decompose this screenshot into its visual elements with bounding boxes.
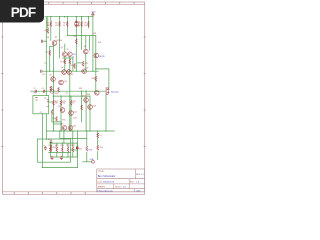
wire psu link [70,149,77,151]
svg-text:10k: 10k [47,25,50,27]
wire sub-rail y35.6 [67,35,96,37]
svg-text:100: 100 [84,25,87,27]
transistor Q5 [94,53,99,58]
wire x71 low [70,96,72,131]
wire x77.5 psu [77,131,79,168]
wire x97.7 drop b [97,152,99,160]
svg-text:R18: R18 [89,150,92,152]
diode D2 [75,25,77,27]
svg-text:BC556: BC556 [56,40,62,42]
wire x72.9 [72,58,74,71]
electrolytic cap C11 [50,89,54,93]
resistor R15 [81,105,83,110]
components [33,11,119,163]
svg-text:Q8: Q8 [86,67,88,69]
svg-text:1k: 1k [63,25,65,27]
wire x95.8 [95,36,97,92]
svg-text:+35V: +35V [91,11,96,13]
wire y138.4 [60,137,87,139]
resistor R25 [56,147,58,152]
svg-text:1k: 1k [72,103,74,105]
svg-text:Q2: Q2 [61,47,63,49]
wire x97.7 drop [97,131,99,145]
svg-text:R18: R18 [98,42,101,44]
svg-text:Q15: Q15 [60,123,63,125]
capacitor C13 [44,146,47,150]
capacitor C2 [43,90,44,93]
resistor R14 [70,100,72,105]
resistor R2 [59,21,61,26]
transistor Q8 [82,69,87,74]
svg-text:C9: C9 [44,63,46,65]
resistor R9 [76,39,78,44]
svg-text:R30: R30 [55,93,58,95]
svg-text:330: 330 [55,103,58,105]
svg-text:28/04/2013: 28/04/2013 [103,182,115,184]
sheet frame [2,2,144,194]
svg-text:PDF: PDF [11,5,36,20]
resistor R3 [67,21,69,26]
resistor R28b [72,147,74,152]
wire output/feedback y91.2 [31,90,106,92]
transistor Q17 [95,91,100,96]
wire x59.5 [59,17,61,58]
svg-text:R19: R19 [100,147,103,149]
svg-text:C1: C1 [33,88,35,90]
resistor R1 [50,21,52,26]
transistor Q13 [84,98,89,103]
svg-text:330: 330 [62,103,65,105]
wire y96.1 [53,95,90,97]
svg-text:R6: R6 [45,30,47,32]
resistor R24 [50,147,52,152]
svg-text:R28: R28 [71,145,74,147]
resistor R6 [47,28,49,33]
diode envelope [74,22,78,26]
svg-text:C8: C8 [65,93,67,95]
wire x53.4 low [52,71,54,131]
wire x42.4 drop [41,114,43,168]
svg-text:C:\Users\ben.sch: C:\Users\ben.sch [97,189,114,192]
wire x53.5 [53,45,55,72]
svg-text:Ben Schematic: Ben Schematic [98,174,116,178]
svg-text:Q16: Q16 [73,118,76,120]
svg-text:R34: R34 [87,94,90,96]
wire x69.5 [69,56,71,131]
svg-text:Q1: Q1 [55,37,57,39]
wire stub y41 [43,40,47,42]
schematic wires [31,15,115,168]
svg-text:Q4: Q4 [83,46,85,48]
svg-text:C11: C11 [50,87,53,89]
svg-text:R29: R29 [92,78,95,80]
resistor R11 [58,87,60,92]
svg-text:Q12: Q12 [74,111,77,113]
resistor R29 [95,76,97,81]
svg-text:1k: 1k [72,57,74,59]
wire diff emitter rail y58 [63,57,73,59]
transistor Q9 [51,77,56,82]
svg-text:R32: R32 [79,148,82,150]
wire emitter link y46.3 [50,45,54,47]
resistor R4 [81,21,83,26]
wire x46.3 low [45,114,47,140]
wire V- bottom rail y131 [47,130,115,132]
wire x89.5 [89,36,91,50]
resistor R18 [86,146,88,151]
wire x51.9 bias [51,115,53,122]
svg-text:P2: P2 [40,112,42,114]
svg-text:Speaker: Speaker [111,90,119,93]
wire x64.5 low [64,56,66,70]
frame reference ticks [1,2,145,194]
wire x86.8 res gnd b [86,152,88,162]
svg-text:BD139: BD139 [99,56,105,58]
wire x61 low [60,96,62,131]
resistor R32 [76,147,78,149]
wire x50.8 [50,17,52,41]
svg-text:R31: R31 [62,120,65,122]
svg-text:R33: R33 [79,88,82,90]
resistor R23 [50,145,52,150]
wire x67.3 [66,17,68,36]
wire x86.1 low [85,91,87,131]
input connector pins [47,100,49,107]
wire y124 [53,123,61,125]
svg-text:Q3: Q3 [66,49,68,51]
svg-text:22k: 22k [55,25,58,27]
transistor Q15 [62,126,67,131]
wire x64.5 [64,44,66,52]
svg-text:Q16: Q16 [73,125,76,127]
capacitor C12 [41,40,42,43]
ground circle [92,160,95,163]
svg-text:D3: D3 [71,74,73,76]
resistor R27 [67,147,69,152]
resistor R20b [97,133,99,138]
wire x61.3 bias [60,122,62,131]
resistor RE2 [69,59,71,64]
wire x85 [85,36,87,50]
title block [97,169,145,192]
svg-text:R7: R7 [46,52,48,54]
svg-text:TITLE:: TITLE: [98,171,105,173]
svg-text:R17: R17 [53,118,56,120]
transistor Q2 [63,52,68,57]
capacitor C4 [60,156,63,160]
wire x47.8 stub [47,17,49,28]
svg-text:R5 R6: R5 R6 [60,61,65,63]
capacitor C7 [41,70,42,73]
transistor Q16 [68,126,73,131]
wire mid rail y71.2 [42,70,98,72]
wire x49.7 [49,46,51,71]
wire bias y121.9 [52,121,61,123]
psu group box [37,139,70,162]
svg-text:X1: X1 [44,98,46,100]
capacitor C3 [51,156,54,160]
resistor R7 [49,50,51,55]
input box pins [35,98,37,100]
capacitor C1 [35,90,36,93]
svg-text:Q10: Q10 [64,81,67,83]
wire y143.1 [50,142,77,144]
transistor Q3 [68,52,73,57]
transistor Q11 [60,108,65,113]
transistor Q10 [59,80,64,85]
svg-text:F1: F1 [100,135,102,137]
svg-text:R27: R27 [66,145,69,147]
wire y62.9 [77,62,82,64]
resistor R21 [82,61,84,66]
wire x88.4 [87,17,89,28]
resistor R10 [50,86,52,91]
resistor R13 [60,100,62,105]
svg-text:Q6: Q6 [61,67,63,69]
resistor RE1 [64,59,66,64]
svg-text:R8: R8 [47,37,49,39]
svg-text:C2: C2 [41,88,43,90]
psu chain parts [50,141,53,142]
power flag +35V [92,13,95,17]
svg-text:B1: B1 [48,139,50,141]
resistor R22 [74,63,76,68]
junctions [42,16,107,168]
svg-text:Q13: Q13 [82,96,85,98]
resistor R16 [51,110,53,115]
svg-text:SHEET:: SHEET: [98,187,106,189]
resistor R19 [97,145,99,150]
wire x85.8 low [85,54,87,71]
svg-text:R26: R26 [61,145,64,147]
transistor Q14 [88,105,93,110]
diode D1 [75,21,77,23]
wire speaker return [105,94,107,132]
transistor Q12 [69,111,74,116]
svg-text:C1: C1 [43,145,45,147]
wire speaker feed [96,69,109,88]
svg-text:R24: R24 [49,145,52,147]
svg-text:R23: R23 [53,147,56,149]
wire X1 pin [49,101,54,103]
svg-text:Q11: Q11 [58,106,61,108]
resistor R5 [88,21,90,26]
svg-text:Sheet:: Sheet: [115,186,122,189]
wire psu mid y152.4 [49,151,71,153]
svg-text:R22: R22 [71,65,74,67]
svg-text:2k2: 2k2 [77,25,80,27]
svg-text:GND: GND [90,159,95,161]
wire x77.2 [76,143,78,157]
input group box [33,96,49,114]
wire x81.6 [81,17,83,50]
wire x90 low [89,96,91,131]
wire y157 [50,156,77,158]
wire gnd run y167.5 [42,167,77,169]
wire x72.8 drop [72,131,74,143]
transistor Q4 [84,49,89,54]
svg-text:R21: R21 [85,63,88,65]
wire x63.9 drop [63,131,65,143]
svg-text:Q9: Q9 [49,74,51,76]
resistor R26 [62,147,64,152]
svg-text:Rev:: Rev: [130,182,135,184]
svg-text:C10: C10 [42,74,45,76]
svg-text:R28: R28 [93,33,96,35]
transistor Q1 [52,41,57,46]
wire x46.3 [45,17,47,96]
resistor R12 [53,100,55,105]
wire x92.9 [92,15,94,72]
wire V+ top rail [45,16,93,18]
wire psu res stubs [50,143,73,157]
PDF badge [0,0,44,23]
wire x76.3 [75,17,77,71]
resistor R17 [56,117,58,122]
wire x59.8 drop [59,131,61,138]
wire x81.6 low [81,91,83,122]
wire gnd stub y161.8 [83,161,92,163]
transistor Q6 [62,70,67,75]
wire psu chain x51 [50,139,52,152]
wire x86.8 res gnd [86,131,88,146]
svg-text:R9: R9 [74,36,76,38]
speaker connector X2 [106,88,108,94]
svg-text:Q14: Q14 [93,105,96,107]
transistor Q7 [67,70,72,75]
svg-text:R25: R25 [55,145,58,147]
